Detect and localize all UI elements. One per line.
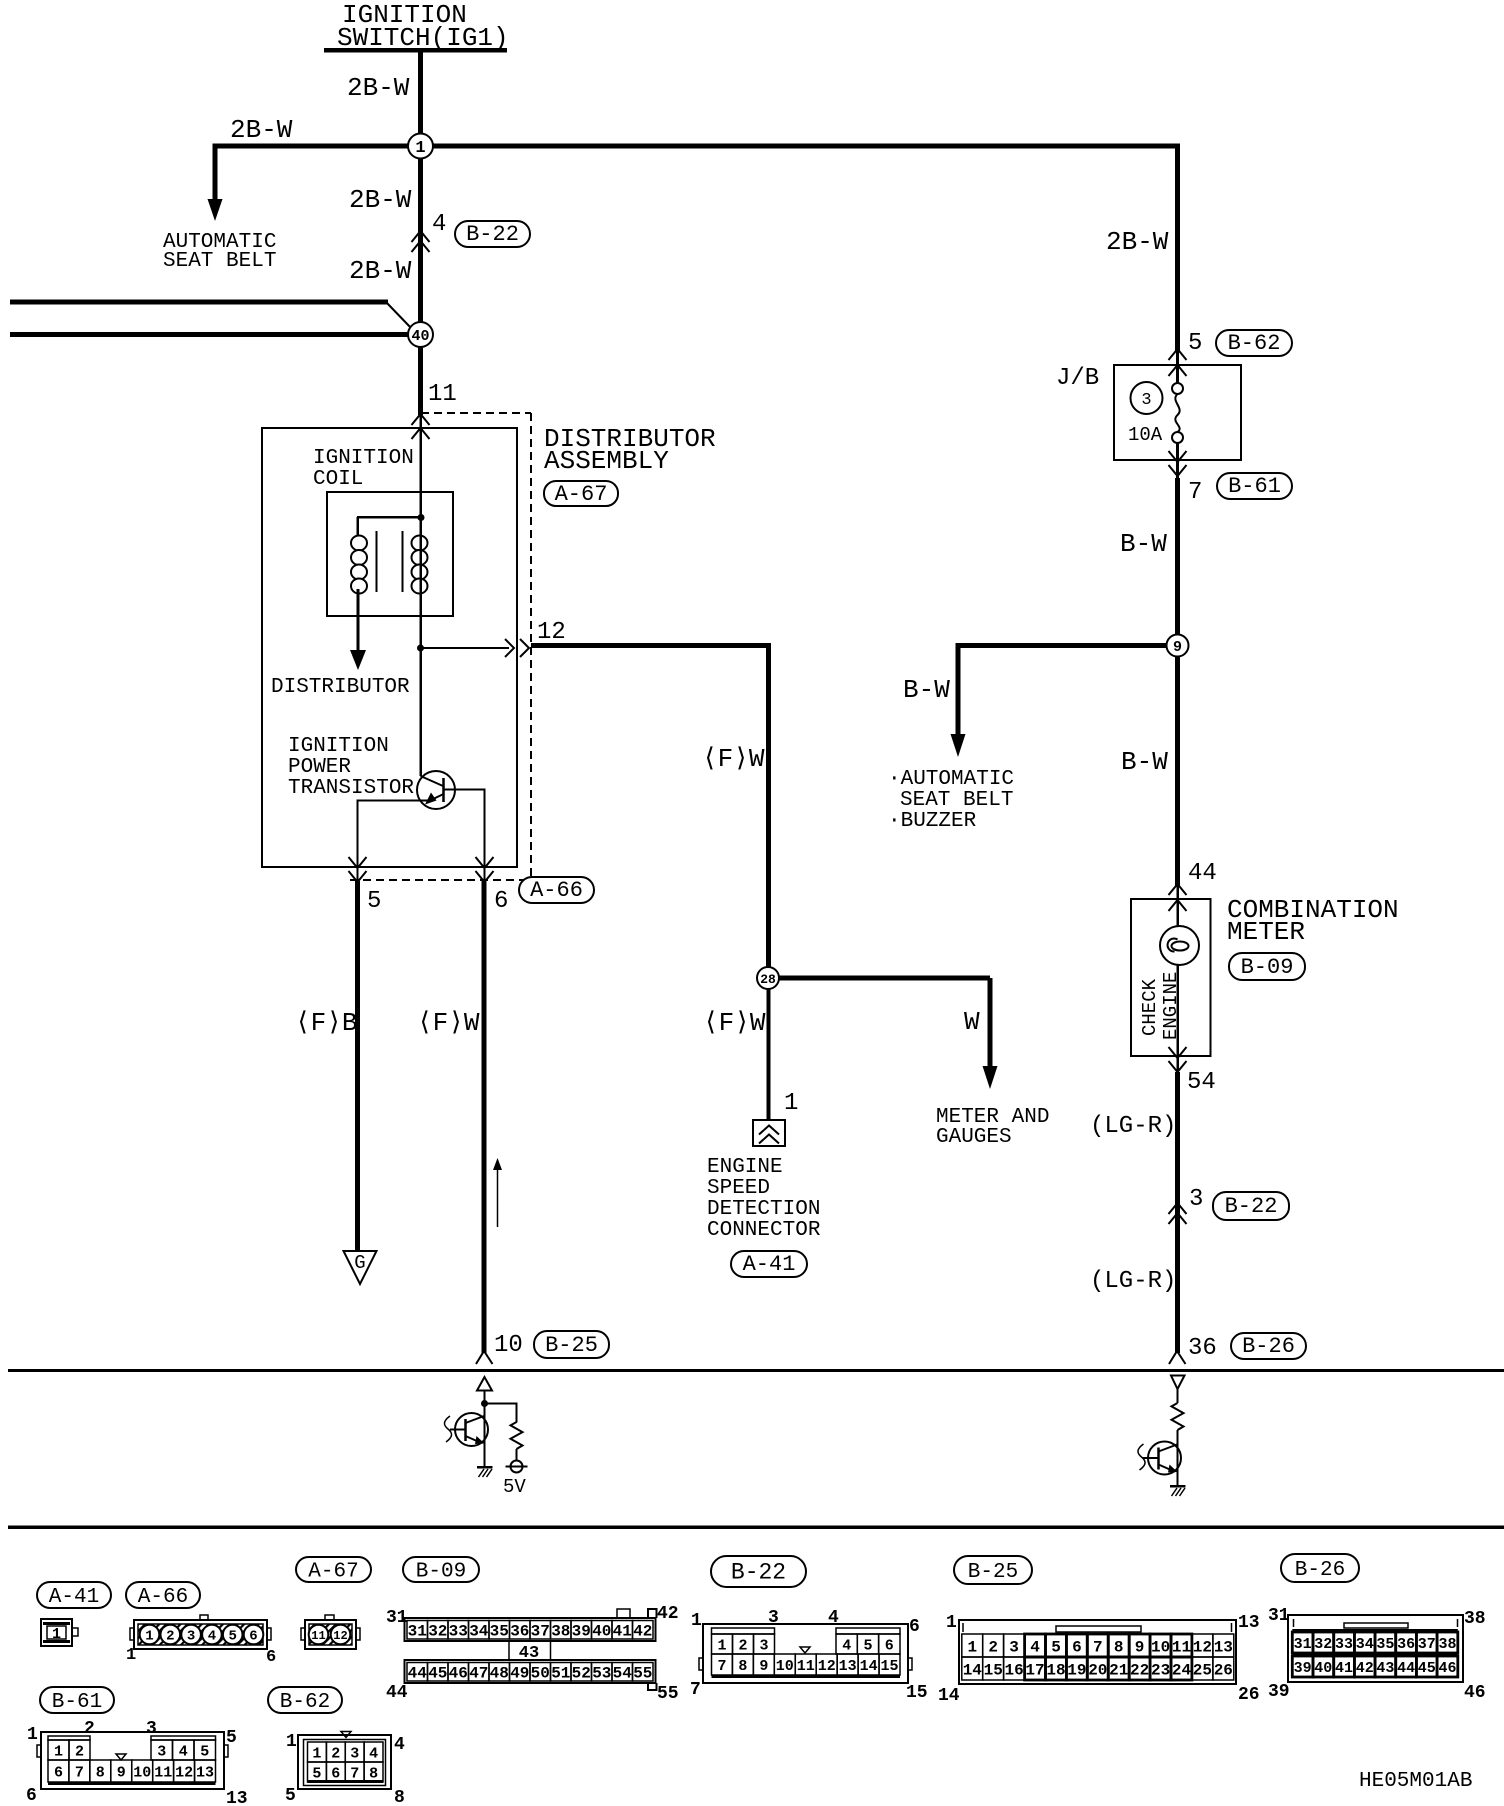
ECU boundary line lower (8, 1526, 1504, 1530)
svg-text:18: 18 (1046, 1661, 1065, 1679)
svg-text:DETECTION: DETECTION (707, 1198, 820, 1221)
transistor Q3 in ECU right (1148, 1430, 1181, 1487)
connector label (B-25) (954, 1556, 1032, 1584)
svg-text:42: 42 (657, 1604, 679, 1624)
wire inside combination meter (1177, 886, 1180, 1056)
svg-text:33: 33 (449, 1623, 468, 1641)
svg-text:⟨F⟩W: ⟨F⟩W (703, 1008, 766, 1038)
wire: node 9 down to combination meter (B-W) (1175, 648, 1180, 886)
svg-text:1: 1 (415, 139, 425, 158)
svg-text:SEAT BELT: SEAT BELT (900, 789, 1013, 812)
chevrons pin 44 (1169, 884, 1187, 911)
connector label (B-25) (534, 1331, 609, 1358)
svg-text:25: 25 (1193, 1661, 1212, 1679)
svg-text:11: 11 (797, 1658, 815, 1675)
svg-text:37: 37 (531, 1623, 550, 1641)
svg-text:B-22: B-22 (731, 1560, 786, 1586)
node 9 (1167, 635, 1189, 657)
svg-text:14: 14 (938, 1686, 960, 1706)
chevrons pin 3 (B-22) (1169, 1203, 1187, 1224)
svg-text:7: 7 (1093, 1638, 1103, 1656)
svg-text:B-22: B-22 (1225, 1194, 1278, 1219)
svg-text:4: 4 (828, 1608, 839, 1628)
svg-text:W: W (964, 1007, 980, 1037)
svg-text:7: 7 (350, 1765, 359, 1782)
connector label (B-61) (1217, 473, 1292, 499)
connector label (A-41) (37, 1582, 111, 1609)
svg-text:9: 9 (1135, 1638, 1145, 1656)
wire: combination meter to ECU pin 36 (LG-R) (1175, 1072, 1180, 1353)
svg-text:43: 43 (1376, 1660, 1394, 1677)
base lead with squiggle right (1138, 1444, 1159, 1470)
svg-text:ASSEMBLY: ASSEMBLY (544, 446, 669, 476)
svg-text:POWER: POWER (288, 756, 351, 779)
svg-text:36: 36 (1397, 1636, 1415, 1653)
arrow to distributor (350, 650, 366, 670)
svg-text:46: 46 (449, 1665, 468, 1683)
wire: coil secondary to ignition power transistor (420, 649, 423, 776)
svg-text:1: 1 (145, 1629, 153, 1645)
engine speed detection connector symbol (753, 1120, 785, 1146)
svg-text:6: 6 (249, 1629, 257, 1645)
svg-text:16: 16 (1004, 1661, 1023, 1679)
svg-text:31: 31 (1294, 1636, 1312, 1653)
combination meter box (1131, 899, 1211, 1056)
ignition coil box (327, 492, 453, 616)
wire: thick feed line upper from left edge (10, 300, 412, 330)
connector label (A-67) (544, 481, 618, 507)
arrow to meter and gauges (983, 1066, 998, 1089)
wire: branch to automatic seat belt (213, 144, 218, 202)
fuse 3 circled number (1131, 382, 1163, 414)
wire: node 28 branch to meter and gauges (768, 976, 993, 1068)
svg-text:8: 8 (1114, 1638, 1124, 1656)
svg-text:15: 15 (984, 1661, 1003, 1679)
svg-text:2: 2 (166, 1629, 174, 1645)
svg-text:TRANSISTOR: TRANSISTOR (288, 777, 414, 800)
svg-text:50: 50 (531, 1665, 550, 1683)
connector B-25 pinout (938, 1613, 1260, 1706)
label IGNITION COIL (313, 447, 414, 491)
svg-text:46: 46 (1464, 1683, 1486, 1703)
svg-text:54: 54 (613, 1665, 633, 1683)
connector label (A-66) (126, 1582, 200, 1609)
svg-text:44: 44 (1188, 860, 1217, 887)
wire end fork pin 10 (476, 1351, 493, 1364)
svg-text:B-61: B-61 (1228, 474, 1281, 499)
svg-text:48: 48 (490, 1665, 509, 1683)
svg-text:10A: 10A (1128, 424, 1163, 446)
ECU input triangle right (1171, 1376, 1185, 1390)
svg-text:41: 41 (1335, 1660, 1353, 1677)
base lead with squiggle (444, 1416, 466, 1442)
svg-text:31: 31 (408, 1623, 427, 1641)
svg-text:·AUTOMATIC: ·AUTOMATIC (888, 768, 1014, 791)
chevrons entering distributor assembly pin 11 (412, 414, 430, 439)
resistor R2 (1172, 1403, 1184, 1430)
wire: pin 5 lead (357, 800, 359, 881)
label METER AND GAUGES (936, 1106, 1049, 1149)
svg-text:6: 6 (1072, 1638, 1082, 1656)
wire resistor to 5V source (516, 1449, 518, 1461)
svg-text:24: 24 (1172, 1661, 1192, 1679)
transistor Q2 in ECU left (455, 1403, 488, 1467)
svg-text:B-26: B-26 (1295, 1559, 1345, 1582)
svg-text:SEAT BELT: SEAT BELT (163, 250, 276, 273)
svg-text:IGNITION: IGNITION (313, 447, 414, 470)
svg-text:2: 2 (738, 1637, 747, 1654)
svg-text:40: 40 (592, 1623, 611, 1641)
svg-text:3: 3 (157, 1743, 166, 1760)
connector label (B-26) (1231, 1333, 1306, 1359)
svg-text:10: 10 (494, 1332, 523, 1359)
svg-text:CONNECTOR: CONNECTOR (707, 1219, 821, 1242)
svg-text:3: 3 (759, 1637, 768, 1654)
svg-text:37: 37 (1418, 1636, 1436, 1653)
svg-text:31: 31 (386, 1608, 408, 1628)
connector label (B-09) (403, 1557, 479, 1584)
svg-text:9: 9 (759, 1658, 768, 1675)
svg-text:36: 36 (1188, 1335, 1217, 1362)
svg-text:7: 7 (75, 1764, 84, 1781)
ground G (344, 1251, 377, 1284)
svg-text:2B-W: 2B-W (349, 185, 412, 215)
svg-text:B-W: B-W (1120, 529, 1167, 559)
svg-text:6: 6 (885, 1637, 894, 1654)
node 1 (408, 134, 433, 159)
svg-text:34: 34 (469, 1623, 489, 1641)
svg-text:METER: METER (1227, 917, 1305, 947)
svg-text:1: 1 (717, 1637, 726, 1654)
svg-text:1: 1 (784, 1090, 798, 1117)
svg-text:J/B: J/B (1056, 365, 1099, 392)
node 40 (408, 322, 433, 347)
svg-text:A-41: A-41 (49, 1586, 99, 1609)
svg-text:45: 45 (428, 1665, 447, 1683)
svg-text:6: 6 (494, 888, 508, 915)
svg-text:1: 1 (312, 1745, 321, 1762)
svg-text:8: 8 (96, 1764, 105, 1781)
svg-text:2B-W: 2B-W (347, 73, 410, 103)
junction dot (481, 1400, 488, 1407)
svg-text:6: 6 (266, 1648, 276, 1667)
ground at ECU left (477, 1466, 493, 1477)
connector label (B-09) (1229, 953, 1305, 980)
svg-text:21: 21 (1109, 1661, 1128, 1679)
svg-text:CHECK: CHECK (1139, 978, 1161, 1036)
svg-text:B-09: B-09 (1241, 955, 1294, 980)
connector label (B-62) (1216, 330, 1292, 356)
chevrons at pin 6 (476, 857, 494, 882)
wire segment into junction block (1176, 352, 1179, 384)
svg-text:39: 39 (1294, 1660, 1312, 1677)
connector A-67 pinout (301, 1615, 360, 1649)
svg-text:6: 6 (26, 1786, 37, 1806)
svg-text:GAUGES: GAUGES (936, 1126, 1012, 1149)
svg-text:4: 4 (208, 1629, 216, 1645)
wire into ignition coil (420, 415, 423, 518)
svg-text:5: 5 (312, 1765, 321, 1782)
ignition switch (IG1) label (324, 0, 509, 53)
connector B-61 pinout (26, 1719, 248, 1806)
svg-text:6: 6 (331, 1765, 340, 1782)
connector label (B-22) right (1213, 1192, 1289, 1220)
svg-text:34: 34 (1356, 1636, 1374, 1653)
svg-text:4: 4 (369, 1745, 378, 1762)
svg-text:COIL: COIL (313, 468, 363, 491)
svg-text:5: 5 (1051, 1638, 1061, 1656)
svg-text:5: 5 (367, 888, 381, 915)
connector B-26 pinout (1268, 1606, 1486, 1703)
connector B-22 pinout (690, 1608, 928, 1703)
svg-text:26: 26 (1238, 1685, 1260, 1705)
svg-text:33: 33 (1335, 1636, 1353, 1653)
svg-text:4: 4 (1030, 1638, 1040, 1656)
wire segment out of fuse (1176, 443, 1179, 478)
svg-text:19: 19 (1067, 1661, 1086, 1679)
connector label (B-61) (40, 1687, 114, 1714)
svg-text:2: 2 (75, 1743, 84, 1760)
wire: coil secondary down (420, 517, 423, 648)
fuse element (1172, 383, 1183, 443)
label COMBINATION METER (1227, 895, 1399, 947)
svg-text:5: 5 (228, 1629, 236, 1645)
svg-text:14: 14 (860, 1658, 878, 1675)
svg-text:SPEED: SPEED (707, 1177, 770, 1200)
svg-text:5V: 5V (503, 1476, 526, 1498)
junction block J/B box (1114, 365, 1241, 460)
svg-text:20: 20 (1088, 1661, 1107, 1679)
svg-text:55: 55 (633, 1665, 652, 1683)
wire: coil primary to distributor arrow (357, 589, 360, 651)
svg-text:17: 17 (1025, 1661, 1044, 1679)
wire: node 40 down to distributor assembly (418, 335, 423, 415)
svg-text:10: 10 (776, 1658, 794, 1675)
svg-text:14: 14 (963, 1661, 983, 1679)
svg-text:5: 5 (285, 1786, 296, 1806)
svg-text:A-67: A-67 (555, 482, 608, 507)
distributor assembly inner solid box (262, 428, 517, 867)
label AUTOMATIC SEAT BELT BUZZER (888, 768, 1014, 833)
wire junction to pull-up resistor (485, 1403, 518, 1423)
svg-text:3: 3 (1009, 1638, 1019, 1656)
ground at ECU right (1170, 1485, 1186, 1496)
chevrons at pin 12 (505, 639, 529, 657)
svg-text:2: 2 (331, 1745, 340, 1762)
svg-text:A-41: A-41 (743, 1252, 796, 1277)
svg-text:55: 55 (657, 1684, 679, 1704)
svg-text:1: 1 (54, 1743, 63, 1760)
resistor R1 pull-up (511, 1422, 523, 1449)
wire: pin 12 thick run to node 28 (531, 643, 771, 968)
svg-text:1: 1 (52, 1626, 61, 1643)
svg-text:44: 44 (408, 1665, 428, 1683)
svg-text:4: 4 (394, 1735, 405, 1755)
svg-text:35: 35 (1376, 1636, 1394, 1653)
svg-text:10: 10 (133, 1764, 151, 1781)
connector label (A-67) (296, 1557, 371, 1584)
svg-text:40: 40 (1314, 1660, 1332, 1677)
svg-text:5: 5 (863, 1637, 872, 1654)
svg-text:15: 15 (906, 1683, 928, 1703)
wire: thick feed line lower from left edge (10, 332, 409, 337)
svg-text:7: 7 (1188, 479, 1202, 506)
svg-text:G: G (354, 1252, 365, 1274)
label IGNITION POWER TRANSISTOR (288, 735, 414, 800)
svg-text:40: 40 (411, 328, 429, 345)
svg-text:7: 7 (717, 1658, 726, 1675)
svg-text:1: 1 (27, 1725, 38, 1745)
wire: transistor emitter to pin 5 (358, 800, 428, 802)
svg-text:1: 1 (126, 1646, 136, 1665)
svg-text:⟨F⟩B: ⟨F⟩B (295, 1008, 358, 1038)
svg-text:B-25: B-25 (545, 1333, 598, 1358)
wire: pin 6 to ECU pin 10 (F W) (482, 881, 487, 1353)
svg-text:⟨F⟩W: ⟨F⟩W (417, 1008, 480, 1038)
svg-text:3: 3 (187, 1629, 195, 1645)
svg-text:2B-W: 2B-W (349, 256, 412, 286)
svg-text:B-W: B-W (903, 675, 950, 705)
5V supply symbol (506, 1461, 528, 1473)
wire: thin line from coil to pin 12 (421, 647, 509, 649)
svg-text:28: 28 (760, 972, 776, 987)
svg-text:12: 12 (1193, 1638, 1212, 1656)
svg-text:45: 45 (1418, 1660, 1436, 1677)
svg-text:9: 9 (117, 1764, 126, 1781)
svg-text:13: 13 (226, 1789, 248, 1806)
svg-text:3: 3 (1141, 391, 1151, 410)
svg-text:22: 22 (1130, 1661, 1149, 1679)
svg-text:9: 9 (1173, 639, 1182, 656)
svg-text:A-67: A-67 (308, 1561, 358, 1584)
check engine lamp (1160, 926, 1199, 965)
wire: pin 5 to ground (F B) (355, 881, 360, 1252)
arrow to automatic seat belt (208, 199, 223, 221)
svg-text:35: 35 (490, 1623, 509, 1641)
svg-text:·BUZZER: ·BUZZER (888, 810, 977, 833)
svg-text:5: 5 (200, 1743, 209, 1760)
svg-text:11: 11 (1172, 1638, 1191, 1656)
wire: fuse to node 9 (B-W) (1175, 478, 1180, 648)
svg-text:DISTRIBUTOR: DISTRIBUTOR (271, 676, 410, 699)
chevrons at pin 5 (349, 857, 367, 882)
svg-text:8: 8 (394, 1788, 405, 1806)
arrow to automatic seat belt buzzer (951, 734, 966, 757)
svg-text:3: 3 (146, 1719, 157, 1739)
svg-text:5: 5 (1188, 330, 1202, 357)
svg-text:49: 49 (510, 1665, 529, 1683)
wire: node 28 down to engine speed detection connector (767, 989, 771, 1120)
svg-text:42: 42 (633, 1623, 652, 1641)
connector label (B-62) (268, 1687, 342, 1714)
label ENGINE SPEED DETECTION CONNECTOR (707, 1156, 821, 1242)
svg-text:12: 12 (175, 1764, 193, 1781)
svg-text:8: 8 (369, 1765, 378, 1782)
svg-text:A-66: A-66 (138, 1586, 188, 1609)
connector label (A-66) (519, 877, 594, 903)
wire: node 1 horizontal bus to right (215, 144, 1177, 149)
wire: node 9 branch to seat belt buzzer (956, 643, 1179, 735)
current direction arrow (493, 1158, 502, 1227)
svg-text:B-W: B-W (1121, 747, 1168, 777)
ECU input triangle left (477, 1377, 492, 1391)
svg-text:26: 26 (1214, 1661, 1233, 1679)
svg-text:4: 4 (179, 1743, 188, 1760)
svg-text:42: 42 (1356, 1660, 1374, 1677)
ignition coil transformer (351, 514, 428, 594)
svg-text:53: 53 (592, 1665, 611, 1683)
svg-text:44: 44 (1397, 1660, 1415, 1677)
wire: node 1 down to node 40 (2B-W) (418, 146, 423, 335)
svg-text:B-62: B-62 (1228, 331, 1281, 356)
svg-text:1: 1 (967, 1638, 977, 1656)
svg-text:B-22: B-22 (466, 222, 519, 247)
svg-text:39: 39 (572, 1623, 591, 1641)
connector crossing 4 (B-22) chevrons (412, 231, 430, 252)
svg-text:36: 36 (510, 1623, 529, 1641)
wire stub below combination meter (1177, 1056, 1180, 1072)
svg-text:46: 46 (1438, 1660, 1456, 1677)
svg-text:2: 2 (988, 1638, 998, 1656)
svg-text:11: 11 (311, 1629, 325, 1643)
svg-text:6: 6 (909, 1617, 920, 1637)
svg-text:⟨F⟩W: ⟨F⟩W (702, 744, 765, 774)
svg-text:8: 8 (738, 1658, 747, 1675)
svg-text:B-25: B-25 (968, 1561, 1018, 1584)
svg-text:3: 3 (1189, 1186, 1203, 1213)
wire: right bus down to J/B (2B-W) (1175, 144, 1180, 353)
svg-text:B-09: B-09 (416, 1561, 466, 1584)
wire triangle to resistor (1177, 1389, 1179, 1403)
chevrons pin 7 (B-61) (1169, 451, 1187, 476)
svg-text:11: 11 (154, 1764, 172, 1781)
connector B-62 pinout (285, 1732, 405, 1806)
svg-text:(LG-R): (LG-R) (1090, 1113, 1176, 1140)
wire triangle to junction (484, 1390, 486, 1403)
svg-text:B-61: B-61 (52, 1691, 102, 1714)
chevrons pin 5 (B-62) (1169, 349, 1187, 376)
svg-text:3: 3 (350, 1745, 359, 1762)
svg-text:1: 1 (946, 1613, 957, 1633)
label CHECK ENGINE (rotated) (1139, 972, 1182, 1040)
ECU boundary line upper (8, 1369, 1504, 1372)
svg-text:12: 12 (537, 619, 566, 646)
svg-text:ENGINE: ENGINE (707, 1156, 783, 1179)
svg-text:4: 4 (842, 1637, 851, 1654)
svg-text:41: 41 (613, 1623, 632, 1641)
connector label (B-22) (711, 1556, 806, 1587)
wire: ignition switch to node 1 (2B-W) (418, 52, 423, 146)
node 28 (757, 967, 779, 989)
svg-text:4: 4 (432, 211, 446, 238)
svg-text:(LG-R): (LG-R) (1090, 1268, 1176, 1295)
label DISTRIBUTOR ASSEMBLY (544, 424, 716, 476)
connector A-66 pinout (126, 1615, 276, 1667)
svg-text:31: 31 (1268, 1606, 1290, 1626)
distributor assembly dashed outline (A-67) (350, 413, 531, 880)
svg-text:12: 12 (818, 1658, 836, 1675)
svg-text:51: 51 (551, 1665, 570, 1683)
wire: pin 6 lead (484, 789, 486, 881)
svg-text:32: 32 (428, 1623, 447, 1641)
svg-text:2: 2 (84, 1719, 95, 1739)
svg-text:1: 1 (286, 1732, 297, 1752)
svg-text:6: 6 (54, 1764, 63, 1781)
connector label (B-22) (455, 221, 530, 247)
svg-text:HE05M01AB: HE05M01AB (1359, 1770, 1472, 1793)
svg-text:10: 10 (1151, 1638, 1170, 1656)
svg-text:15: 15 (880, 1658, 898, 1675)
